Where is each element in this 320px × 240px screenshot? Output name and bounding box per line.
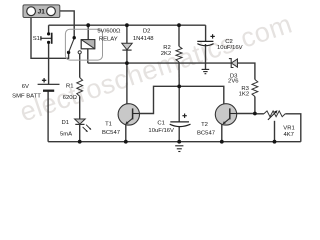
- resistor R3: [252, 80, 258, 97]
- junction bus / D2 cathode: [125, 23, 129, 27]
- LED D1: [75, 119, 92, 132]
- svg-text:T1: T1: [105, 122, 112, 128]
- junction bus / relay coil top: [86, 23, 90, 27]
- relay coil: [81, 40, 95, 49]
- transistor T2: [215, 104, 237, 125]
- relay armature common: [67, 51, 70, 54]
- svg-text:C1: C1: [157, 121, 165, 127]
- zener D3: [229, 59, 238, 68]
- relay contact top: [73, 36, 76, 39]
- svg-text:2K2: 2K2: [161, 51, 171, 57]
- wire D3 to R3 corner: [238, 63, 255, 79]
- junction ground bus / C1 minus: [177, 140, 181, 144]
- top bus: [49, 24, 206, 26]
- connector J1: [23, 5, 60, 18]
- switch S1: [41, 32, 52, 44]
- junction ground bus / T1 emitter: [124, 140, 128, 144]
- wire VR1 right lead to right edge down to bus: [285, 114, 301, 142]
- wire VR1 wiper to bottom bus: [274, 121, 276, 142]
- svg-text:BC547: BC547: [102, 130, 120, 136]
- potentiometer VR1: [264, 110, 285, 120]
- svg-text:5mA: 5mA: [60, 131, 72, 137]
- ground under C2: [202, 69, 210, 73]
- wire R1 to D1: [79, 96, 81, 119]
- transistor T1: [118, 104, 139, 125]
- svg-text:4K7: 4K7: [283, 132, 293, 138]
- wire relay coil bottom to rail: [87, 49, 89, 63]
- junction bus / R2 top: [177, 23, 181, 27]
- wire T2 base to divider node: [237, 113, 255, 115]
- svg-text:1K2: 1K2: [239, 91, 249, 97]
- svg-text:D1: D1: [62, 120, 70, 126]
- svg-text:10uF/16V: 10uF/16V: [148, 128, 174, 134]
- wire J1 left terminal to relay common: [31, 15, 69, 58]
- wire C1 node to C1 plus plate: [178, 86, 180, 122]
- wire T2 emitter to bottom bus: [221, 124, 223, 142]
- svg-text:10uF/16V: 10uF/16V: [217, 45, 243, 51]
- ground under C1: [175, 146, 183, 152]
- wire C2 bottom to ground: [205, 44, 207, 69]
- svg-text:T2: T2: [201, 122, 208, 128]
- wire D2 top to bus: [126, 25, 128, 43]
- capacitor C1: [170, 114, 191, 127]
- wire D2 bottom to rail: [126, 50, 128, 63]
- wire T1 emitter to bottom bus: [125, 124, 127, 142]
- svg-text:BC547: BC547: [197, 131, 215, 137]
- battery BT1: [38, 78, 60, 91]
- capacitor C2: [197, 34, 215, 45]
- watermark: [16, 9, 296, 128]
- wire S1 bottom to battery +: [48, 44, 50, 84]
- resistor R2: [176, 46, 182, 62]
- wire S1 top to bus: [48, 25, 50, 32]
- svg-text:VR1: VR1: [283, 126, 294, 132]
- junction ground bus / T2 emitter: [220, 140, 224, 144]
- wire T1 base to T2 collector link: [139, 86, 229, 113]
- svg-text:electroschematics.com: electroschematics.com: [16, 9, 296, 128]
- wire VR1 left lead: [255, 113, 264, 115]
- wire bus corner down to C2: [205, 25, 207, 41]
- svg-text:R1: R1: [66, 83, 74, 89]
- relay NO contact: [78, 51, 81, 54]
- relay box: [65, 29, 102, 60]
- svg-text:SMF BATT: SMF BATT: [12, 94, 41, 100]
- wire C1 bottom to bottom bus: [178, 127, 180, 142]
- svg-text:6V: 6V: [22, 84, 29, 90]
- svg-text:620Ω: 620Ω: [63, 95, 78, 101]
- relay armature: [69, 38, 75, 52]
- rail T1 collector node: [88, 62, 231, 64]
- svg-text:5V/600Ω: 5V/600Ω: [97, 28, 121, 34]
- wire relay coil top to bus: [87, 25, 89, 39]
- junction node R3 / T2 base / VR1: [253, 112, 257, 116]
- junction rail / D2 anode / T1 collector: [125, 61, 129, 65]
- svg-text:RELAY: RELAY: [99, 37, 118, 43]
- wire T1 collector: [127, 63, 133, 110]
- wire J1 right terminal to bus and relay contact: [55, 11, 74, 37]
- svg-text:D2: D2: [143, 29, 151, 35]
- junction ground bus / D1 cathode: [78, 140, 82, 144]
- junction node T1 base / T2 collector / C1 plus: [177, 85, 181, 89]
- svg-text:2V6: 2V6: [228, 79, 239, 85]
- wire R3 bottom to divider node: [254, 97, 256, 114]
- resistor R1: [77, 78, 83, 97]
- wire D1 to bottom bus: [79, 124, 81, 141]
- svg-text:1N4148: 1N4148: [133, 36, 154, 42]
- bottom bus (ground): [48, 141, 301, 143]
- svg-text:J1: J1: [38, 8, 46, 15]
- wire R2 bottom across rail to C1 node: [178, 62, 180, 86]
- junction ground bus / VR1 wiper: [273, 140, 277, 144]
- diode D2: [122, 43, 132, 50]
- svg-text:S1: S1: [33, 36, 40, 42]
- wire relay NO contact to R1: [79, 54, 81, 78]
- wire R2 top to bus: [178, 25, 180, 46]
- wire battery - to bottom bus: [47, 91, 49, 142]
